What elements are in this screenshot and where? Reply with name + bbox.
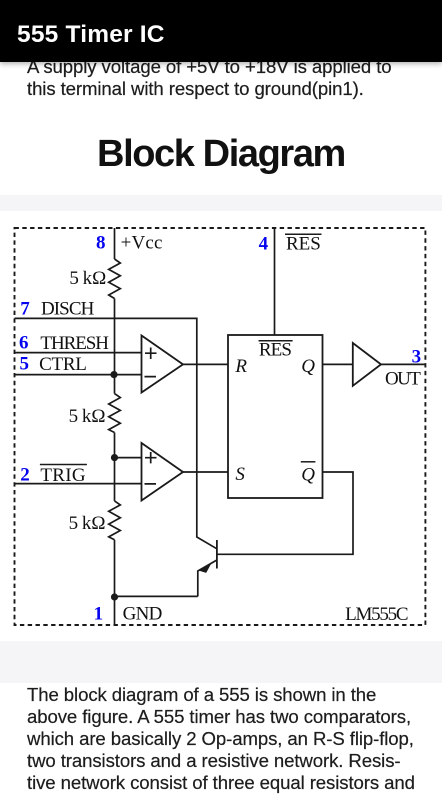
gray gap band above figure — [0, 195, 442, 211]
svg-text:5 kΩ: 5 kΩ — [69, 406, 106, 427]
svg-text:Q: Q — [301, 465, 315, 486]
svg-text:8: 8 — [96, 233, 106, 254]
svg-text:7: 7 — [20, 299, 30, 320]
gray side strips — [0, 211, 3, 641]
top paragraph — [27, 56, 431, 100]
dashed boundary of IC — [15, 228, 426, 625]
junction node on rail at comp2 + — [111, 454, 118, 461]
svg-text:4: 4 — [259, 233, 269, 254]
svg-text:3: 3 — [412, 346, 422, 367]
wire: rail bottom to GND pin — [114, 540, 116, 625]
wire: rail to comparator 2 + input — [115, 457, 142, 459]
svg-text:6: 6 — [19, 332, 29, 353]
svg-text:THRESH: THRESH — [40, 333, 109, 354]
section heading — [0, 133, 442, 176]
wire: Qbar feedback to transistor base — [217, 472, 353, 554]
svg-text:LM555C: LM555C — [345, 604, 409, 625]
svg-text:OUT: OUT — [385, 368, 421, 389]
wire: buffer to OUT pin — [381, 363, 425, 365]
wire: rail between R1 and R2 — [114, 299, 116, 394]
svg-text:R: R — [234, 356, 247, 377]
wire: comparator 2 output to S input — [183, 471, 228, 473]
svg-text:Q: Q — [301, 356, 315, 377]
comparator U2 triangle — [142, 443, 184, 501]
svg-text:5: 5 — [20, 354, 30, 375]
wire: rail between R2 and R3 — [114, 433, 116, 501]
bottom paragraph — [27, 684, 431, 794]
transistor Q1 emitter with arrow — [198, 560, 217, 596]
wire: TRIG to comparator 2 - input — [15, 483, 142, 485]
wire: emitter to GND rail — [115, 595, 198, 597]
comparator U1 triangle — [142, 336, 184, 393]
svg-text:RES: RES — [259, 340, 292, 361]
wire: CTRL to comparator 1 - input — [15, 374, 142, 376]
U1 plus sign — [145, 348, 157, 377]
wire: THRESH to comparator 1 + input — [15, 352, 142, 354]
svg-text:S: S — [235, 464, 245, 485]
svg-text:DISCH: DISCH — [41, 299, 95, 320]
wire: Q to output buffer — [323, 363, 353, 365]
flip-flop U3 box — [228, 335, 323, 498]
svg-text:5 kΩ: 5 kΩ — [69, 513, 106, 534]
resistor R1 5k — [109, 259, 121, 299]
app header bar — [0, 0, 442, 62]
svg-text:+Vcc: +Vcc — [121, 233, 163, 254]
U2 plus sign — [145, 452, 157, 484]
transistor Q1 base bar — [216, 540, 218, 569]
wire: +Vcc rail top segment — [114, 228, 116, 259]
svg-text:GND: GND — [123, 604, 163, 625]
resistor R2 5k — [109, 394, 121, 433]
svg-text:RES: RES — [286, 233, 321, 254]
svg-text:5 kΩ: 5 kΩ — [69, 268, 106, 289]
svg-text:CTRL: CTRL — [39, 354, 87, 375]
wire: pin 4 RES down to flip-flop — [274, 228, 276, 335]
junction node on rail at CTRL — [110, 371, 117, 378]
junction node at GND — [111, 593, 118, 600]
svg-text:2: 2 — [20, 465, 30, 486]
output buffer triangle — [353, 343, 381, 386]
svg-text:1: 1 — [94, 603, 104, 624]
gray gap band below figure — [0, 641, 442, 683]
resistor R3 5k — [109, 501, 121, 540]
555 block diagram figure — [0, 211, 442, 641]
wire: comparator 1 output to R input — [183, 363, 228, 365]
wire: DISCH to transistor collector — [15, 318, 217, 548]
